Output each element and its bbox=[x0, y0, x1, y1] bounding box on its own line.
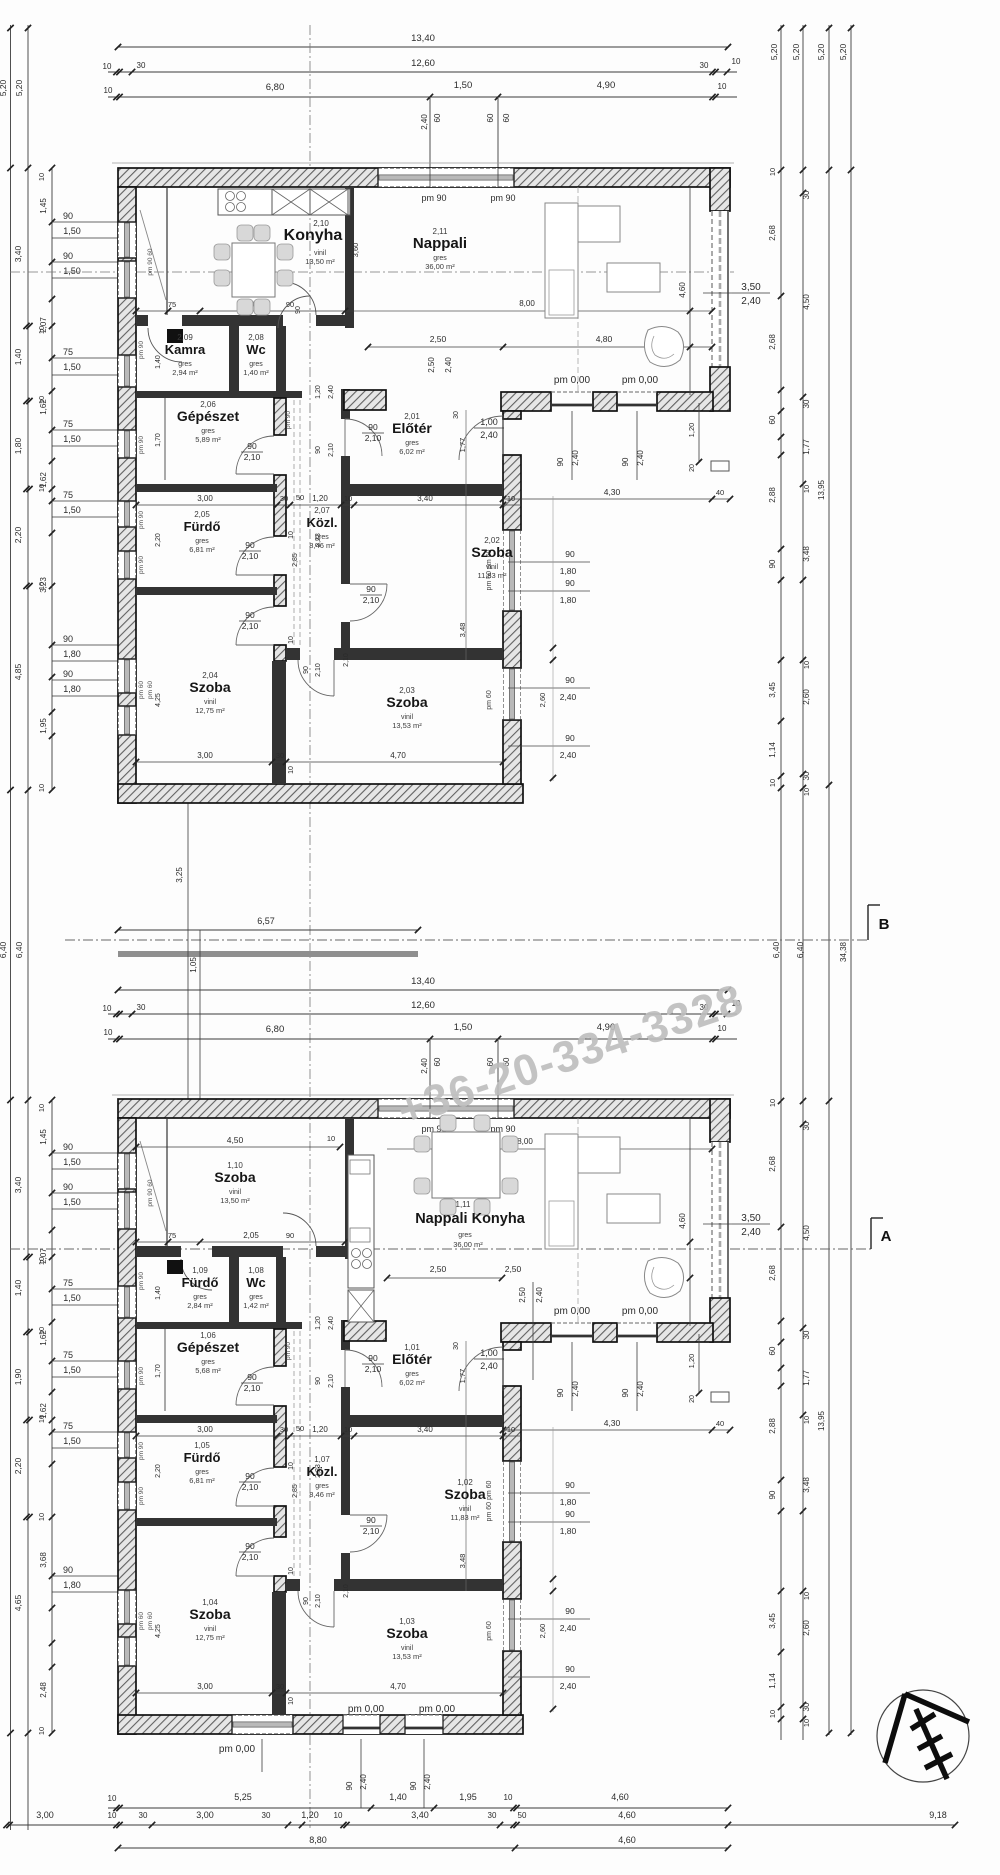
svg-text:75: 75 bbox=[63, 1278, 73, 1288]
svg-text:3,00: 3,00 bbox=[36, 1810, 54, 1820]
svg-text:Fürdő: Fürdő bbox=[184, 1450, 221, 1465]
svg-text:30: 30 bbox=[802, 190, 811, 199]
door furdo bbox=[236, 537, 274, 575]
svg-text:30: 30 bbox=[280, 494, 288, 503]
svg-text:90: 90 bbox=[565, 549, 575, 559]
svg-text:gres: gres bbox=[405, 440, 419, 447]
svg-text:4,60: 4,60 bbox=[678, 282, 687, 298]
terrace sliding door 1 bbox=[551, 391, 593, 393]
window left bbox=[118, 1153, 136, 1189]
wall konyha-nappali divider bbox=[345, 1118, 354, 1259]
svg-text:3,00: 3,00 bbox=[197, 751, 213, 760]
svg-text:10: 10 bbox=[103, 62, 112, 71]
svg-text:1,80: 1,80 bbox=[560, 595, 577, 605]
wall below kamra-wc bbox=[136, 1322, 302, 1329]
corridor left wall piers bbox=[274, 1329, 286, 1366]
door konyha-corridor bbox=[283, 282, 316, 315]
corridor right wall / szoba2 left wall bbox=[341, 1387, 350, 1515]
svg-text:10: 10 bbox=[802, 788, 811, 796]
coffee table lower bbox=[607, 1194, 660, 1223]
dashed line nappali bbox=[577, 187, 579, 392]
svg-text:2,50: 2,50 bbox=[518, 1287, 527, 1303]
svg-text:2,09: 2,09 bbox=[177, 333, 193, 342]
svg-text:50: 50 bbox=[296, 1424, 304, 1433]
svg-text:20: 20 bbox=[689, 1395, 696, 1403]
svg-text:Szoba: Szoba bbox=[214, 1169, 255, 1185]
svg-text:1,20: 1,20 bbox=[312, 1425, 328, 1434]
svg-text:10: 10 bbox=[104, 86, 113, 95]
svg-text:60: 60 bbox=[768, 1346, 777, 1355]
dim line under top row bbox=[136, 1241, 354, 1243]
outer wall left bbox=[118, 1118, 136, 1734]
svg-text:90: 90 bbox=[63, 1182, 73, 1192]
svg-text:1,50: 1,50 bbox=[63, 1365, 81, 1375]
svg-text:6,81 m²: 6,81 m² bbox=[189, 545, 215, 554]
terrace wall band blocks bbox=[501, 1323, 551, 1342]
svg-text:90: 90 bbox=[565, 1664, 575, 1674]
svg-text:4,60: 4,60 bbox=[618, 1810, 636, 1820]
left margin line x52 upper bbox=[51, 168, 53, 790]
svg-text:2,40: 2,40 bbox=[560, 1681, 577, 1691]
svg-text:vinil: vinil bbox=[229, 1189, 242, 1196]
svg-text:1,77: 1,77 bbox=[802, 439, 811, 455]
svg-text:8,00: 8,00 bbox=[519, 299, 535, 308]
svg-text:1,42 m²: 1,42 m² bbox=[243, 1301, 269, 1310]
window size label left lower bbox=[52, 1360, 118, 1362]
svg-text:1,50: 1,50 bbox=[63, 362, 81, 372]
wall furdo bottom bbox=[136, 1518, 277, 1526]
svg-text:2,40: 2,40 bbox=[328, 385, 335, 399]
svg-text:30: 30 bbox=[488, 1811, 497, 1820]
coffee table upper bbox=[607, 263, 660, 292]
svg-text:10: 10 bbox=[37, 173, 46, 181]
watermark phone number bbox=[392, 975, 750, 1136]
gepeszet closet line bbox=[164, 1329, 166, 1411]
window bottom left bbox=[232, 1715, 293, 1734]
kitchen counter upper bbox=[218, 189, 350, 215]
svg-text:2,20: 2,20 bbox=[155, 533, 162, 547]
right margin line x851 bbox=[850, 25, 852, 1735]
dining table upper bbox=[232, 243, 275, 297]
svg-text:pm 0,00: pm 0,00 bbox=[219, 1744, 256, 1755]
wall szoba 2.03 top / corridor bottom bbox=[286, 1579, 300, 1591]
window right low bbox=[503, 668, 521, 720]
svg-text:vinil: vinil bbox=[459, 1506, 472, 1513]
window size label left upper bbox=[52, 429, 118, 431]
kitchen crossed units lower bbox=[348, 1290, 374, 1322]
svg-text:1,95: 1,95 bbox=[39, 718, 48, 734]
wall below top-left room bbox=[136, 315, 148, 326]
window size label left lower bbox=[52, 1288, 118, 1290]
svg-text:gres: gres bbox=[201, 428, 215, 435]
svg-text:13,95: 13,95 bbox=[817, 479, 826, 500]
svg-text:2,10: 2,10 bbox=[328, 443, 335, 457]
svg-text:pm 90 60: pm 90 60 bbox=[147, 248, 154, 275]
kitchen counter lower vertical bbox=[348, 1155, 374, 1288]
svg-text:1,70: 1,70 bbox=[155, 1364, 162, 1378]
terrace slab edge middle bbox=[118, 951, 418, 957]
svg-text:gres: gres bbox=[315, 1483, 329, 1490]
svg-text:1,50: 1,50 bbox=[454, 80, 473, 91]
window size label left lower bbox=[52, 1575, 118, 1577]
dim 4,30 under terrace bbox=[503, 498, 730, 500]
svg-text:13,40: 13,40 bbox=[411, 976, 435, 987]
svg-text:40: 40 bbox=[716, 488, 724, 497]
svg-text:1,70: 1,70 bbox=[155, 433, 162, 447]
svg-text:1,00: 1,00 bbox=[480, 417, 498, 427]
svg-text:1,05: 1,05 bbox=[194, 1441, 210, 1450]
svg-text:6,40: 6,40 bbox=[14, 941, 24, 958]
svg-text:10: 10 bbox=[768, 168, 777, 176]
armchair upper bbox=[644, 326, 683, 366]
svg-text:4,85: 4,85 bbox=[13, 663, 23, 680]
svg-text:2,08: 2,08 bbox=[248, 333, 264, 342]
svg-text:gres: gres bbox=[458, 1232, 472, 1239]
eloter top stub wall bbox=[344, 390, 386, 410]
svg-text:1,50: 1,50 bbox=[63, 226, 81, 236]
svg-text:2,40: 2,40 bbox=[741, 296, 761, 307]
dimension 12,60 middle bbox=[108, 1013, 737, 1015]
svg-text:10: 10 bbox=[802, 1416, 811, 1424]
svg-text:90: 90 bbox=[63, 1565, 73, 1575]
svg-text:Wc: Wc bbox=[246, 1275, 266, 1290]
svg-text:30: 30 bbox=[137, 61, 146, 70]
wall between szoba 2.04 and 2.03 bbox=[272, 1592, 286, 1715]
svg-text:3,00: 3,00 bbox=[196, 1810, 214, 1820]
roof overhang line top bbox=[112, 162, 734, 164]
svg-text:3,40: 3,40 bbox=[417, 1425, 433, 1434]
svg-text:pm 90: pm 90 bbox=[138, 1272, 145, 1290]
svg-text:pm 90: pm 90 bbox=[138, 341, 145, 359]
svg-text:2,40: 2,40 bbox=[420, 114, 429, 130]
svg-text:30: 30 bbox=[137, 1003, 146, 1012]
svg-text:2,40: 2,40 bbox=[560, 1623, 577, 1633]
svg-text:90: 90 bbox=[63, 669, 73, 679]
svg-text:Szoba: Szoba bbox=[471, 544, 512, 560]
svg-text:3,48: 3,48 bbox=[802, 1477, 811, 1493]
svg-text:10: 10 bbox=[37, 1104, 46, 1112]
svg-text:90: 90 bbox=[245, 610, 255, 620]
extension line window right mullion top bbox=[497, 97, 499, 168]
svg-text:2,40: 2,40 bbox=[741, 1227, 761, 1238]
svg-text:10: 10 bbox=[288, 1567, 295, 1575]
svg-text:30: 30 bbox=[453, 411, 460, 419]
svg-text:pm 0,00: pm 0,00 bbox=[554, 1306, 591, 1317]
corridor right wall / szoba2 left wall bbox=[341, 456, 350, 584]
window size label left upper bbox=[52, 679, 118, 681]
svg-text:gres: gres bbox=[249, 361, 263, 368]
svg-text:Fürdő: Fürdő bbox=[184, 519, 221, 534]
svg-text:4,60: 4,60 bbox=[618, 1835, 636, 1845]
svg-text:Szoba: Szoba bbox=[189, 679, 230, 695]
door szoba2.03 bbox=[298, 1591, 334, 1627]
svg-text:90: 90 bbox=[621, 1388, 630, 1397]
svg-text:10: 10 bbox=[718, 82, 727, 91]
svg-text:Közl.: Közl. bbox=[306, 1464, 337, 1479]
svg-text:pm 0,00: pm 0,00 bbox=[348, 1704, 385, 1715]
svg-text:2,10: 2,10 bbox=[242, 1482, 259, 1492]
svg-text:1,40: 1,40 bbox=[389, 1792, 407, 1802]
dim 1,20 electrical bbox=[698, 1334, 700, 1393]
svg-text:1,05: 1,05 bbox=[189, 957, 198, 973]
wall wc right bbox=[276, 326, 286, 391]
window top 1 bbox=[378, 1099, 514, 1118]
dimension chain bottom full bbox=[8, 1824, 955, 1826]
svg-text:2,40: 2,40 bbox=[480, 1361, 498, 1371]
window left bbox=[118, 501, 136, 527]
svg-text:75: 75 bbox=[63, 490, 73, 500]
wall konyha-nappali divider bbox=[345, 187, 354, 328]
svg-text:2,20: 2,20 bbox=[13, 526, 23, 543]
svg-text:6,81 m²: 6,81 m² bbox=[189, 1476, 215, 1485]
kitchen crossed units upper bbox=[272, 189, 310, 215]
window labels right side 90 1,80 bbox=[508, 1492, 590, 1494]
window left bbox=[118, 1482, 136, 1510]
svg-text:90: 90 bbox=[565, 578, 575, 588]
svg-text:2,05: 2,05 bbox=[194, 510, 210, 519]
svg-text:30: 30 bbox=[139, 1811, 148, 1820]
svg-text:4,25: 4,25 bbox=[155, 1624, 162, 1638]
wall wc right bbox=[276, 1257, 286, 1322]
svg-text:90: 90 bbox=[247, 1372, 257, 1382]
dim 8,00 nappali bbox=[354, 310, 712, 312]
window size label left upper bbox=[52, 500, 118, 502]
svg-text:pm 90: pm 90 bbox=[138, 1442, 145, 1460]
svg-text:A: A bbox=[881, 1228, 892, 1245]
svg-text:90: 90 bbox=[621, 457, 630, 466]
svg-text:2,10: 2,10 bbox=[343, 1584, 350, 1598]
dim line under top row bbox=[136, 310, 354, 312]
svg-text:8,46 m²: 8,46 m² bbox=[309, 1490, 335, 1499]
svg-text:8,00: 8,00 bbox=[517, 1137, 533, 1146]
terrace sliding door 2 bbox=[617, 391, 657, 393]
svg-text:90: 90 bbox=[63, 211, 73, 221]
corridor left wall piers bbox=[274, 398, 286, 435]
dimension 6,80 1,50 4,90 top bbox=[108, 96, 737, 98]
svg-text:3,45: 3,45 bbox=[768, 682, 777, 698]
svg-text:1,11: 1,11 bbox=[456, 1200, 472, 1209]
terrace door bottom 1 bbox=[343, 1715, 380, 1734]
svg-text:pm 60: pm 60 bbox=[486, 1621, 493, 1641]
svg-text:2,85: 2,85 bbox=[292, 1484, 299, 1498]
window left bbox=[118, 551, 136, 579]
svg-text:20: 20 bbox=[689, 464, 696, 472]
svg-text:4,65: 4,65 bbox=[13, 1594, 23, 1611]
svg-text:3,45: 3,45 bbox=[768, 1613, 777, 1629]
dim 4,30 under terrace bbox=[503, 1429, 730, 1431]
terrace sliding door 1 bbox=[551, 1322, 593, 1324]
svg-text:1,14: 1,14 bbox=[768, 742, 777, 758]
svg-text:1,14: 1,14 bbox=[768, 1673, 777, 1689]
svg-text:10: 10 bbox=[507, 1425, 515, 1434]
svg-text:8,80: 8,80 bbox=[309, 1835, 327, 1845]
svg-text:90: 90 bbox=[556, 457, 565, 466]
dim extension lower bbox=[532, 1282, 534, 1380]
wall szoba2 top bbox=[341, 1415, 503, 1427]
svg-text:2,60: 2,60 bbox=[538, 693, 547, 708]
svg-text:1,40: 1,40 bbox=[13, 1279, 23, 1296]
outer wall top bbox=[118, 1099, 730, 1118]
extension line window left mullion top bbox=[429, 97, 431, 168]
window size label left lower bbox=[52, 1152, 118, 1154]
gepeszet closet line bbox=[164, 398, 166, 480]
svg-text:75: 75 bbox=[168, 1231, 176, 1240]
svg-text:13,53 m²: 13,53 m² bbox=[392, 721, 422, 730]
svg-text:12,75 m²: 12,75 m² bbox=[195, 1633, 225, 1642]
section line B-B bbox=[65, 939, 868, 941]
dim line bottom rooms bbox=[136, 761, 503, 763]
corridor-eloter wall bbox=[341, 389, 350, 419]
door szoba2.03 bbox=[298, 660, 334, 696]
svg-text:5,20: 5,20 bbox=[769, 43, 779, 60]
svg-text:1,80: 1,80 bbox=[63, 684, 81, 694]
wall gepeszet bottom / furdo top bbox=[136, 1415, 277, 1423]
svg-text:12,60: 12,60 bbox=[411, 1000, 435, 1011]
svg-text:Konyha: Konyha bbox=[284, 227, 343, 244]
svg-text:4,70: 4,70 bbox=[390, 1682, 406, 1691]
svg-text:13,40: 13,40 bbox=[411, 33, 435, 44]
svg-text:3,00: 3,00 bbox=[197, 1425, 213, 1434]
svg-text:pm 0,00: pm 0,00 bbox=[554, 375, 591, 386]
svg-text:10: 10 bbox=[802, 1719, 811, 1727]
svg-text:Előtér: Előtér bbox=[392, 1351, 432, 1367]
svg-text:pm 60: pm 60 bbox=[138, 1612, 145, 1630]
svg-text:10: 10 bbox=[288, 1697, 295, 1705]
svg-text:2,20: 2,20 bbox=[13, 1457, 23, 1474]
svg-text:10: 10 bbox=[768, 1710, 777, 1718]
svg-text:30: 30 bbox=[802, 399, 811, 408]
window right mid bbox=[503, 1461, 521, 1542]
svg-text:10: 10 bbox=[732, 57, 741, 66]
svg-text:gres: gres bbox=[201, 1359, 215, 1366]
outer wall top bbox=[118, 168, 730, 187]
svg-text:90: 90 bbox=[245, 540, 255, 550]
svg-text:6,80: 6,80 bbox=[266, 1024, 285, 1035]
closet line top-left bbox=[166, 1118, 168, 1246]
svg-text:Nappali: Nappali bbox=[413, 235, 467, 252]
svg-text:3,00: 3,00 bbox=[197, 1682, 213, 1691]
svg-text:1,50: 1,50 bbox=[63, 434, 81, 444]
dim 4,50 szoba 1.10 bbox=[136, 1146, 340, 1148]
door kamra bbox=[148, 328, 182, 362]
svg-text:3,40: 3,40 bbox=[411, 1810, 429, 1820]
window right mid bbox=[503, 530, 521, 611]
svg-text:3,40: 3,40 bbox=[13, 1176, 23, 1193]
svg-text:90: 90 bbox=[409, 1781, 418, 1790]
svg-text:4,50: 4,50 bbox=[227, 1135, 244, 1145]
svg-text:2,10: 2,10 bbox=[343, 653, 350, 667]
svg-text:3,25: 3,25 bbox=[175, 867, 184, 883]
svg-text:pm 60 pm 60: pm 60 pm 60 bbox=[486, 1480, 493, 1521]
svg-text:3,50: 3,50 bbox=[741, 1213, 761, 1224]
left margin line x28 bbox=[27, 25, 29, 1830]
svg-text:10: 10 bbox=[37, 784, 46, 792]
svg-text:Wc: Wc bbox=[246, 342, 266, 357]
svg-text:2,88: 2,88 bbox=[768, 487, 777, 503]
svg-text:5,20: 5,20 bbox=[816, 43, 826, 60]
svg-text:2,10: 2,10 bbox=[363, 1526, 380, 1536]
svg-text:5,20: 5,20 bbox=[791, 43, 801, 60]
svg-text:gres: gres bbox=[195, 538, 209, 545]
svg-text:2,50: 2,50 bbox=[430, 334, 447, 344]
wall below top-left room bbox=[136, 1246, 181, 1257]
svg-text:40: 40 bbox=[716, 1419, 724, 1428]
section trace upper plan bbox=[10, 271, 734, 273]
svg-text:12,75 m²: 12,75 m² bbox=[195, 706, 225, 715]
svg-text:90: 90 bbox=[245, 1471, 255, 1481]
svg-text:1,80: 1,80 bbox=[63, 1580, 81, 1590]
svg-text:13,53 m²: 13,53 m² bbox=[392, 1652, 422, 1661]
svg-text:2,05: 2,05 bbox=[243, 1231, 259, 1240]
window left bbox=[118, 1590, 136, 1624]
svg-text:1,20: 1,20 bbox=[687, 423, 696, 438]
svg-text:10: 10 bbox=[504, 1793, 513, 1802]
svg-text:2,10: 2,10 bbox=[244, 1383, 261, 1393]
door szoba 2.04 bbox=[236, 607, 274, 645]
svg-text:4,70: 4,70 bbox=[390, 751, 406, 760]
svg-text:8,46 m²: 8,46 m² bbox=[309, 541, 335, 550]
svg-text:1,80: 1,80 bbox=[13, 437, 23, 454]
sofa lower bbox=[545, 1134, 578, 1249]
svg-text:60: 60 bbox=[486, 113, 495, 122]
svg-text:pm 60: pm 60 bbox=[138, 681, 145, 699]
roof overhang line lower plan bbox=[112, 1094, 734, 1096]
svg-text:90: 90 bbox=[286, 1231, 294, 1240]
door konyha-corridor bbox=[283, 1213, 316, 1246]
logo circle bottom right bbox=[877, 1690, 969, 1782]
svg-text:1,09: 1,09 bbox=[192, 1266, 208, 1275]
window left bbox=[118, 1286, 136, 1318]
outer wall right of lower section bbox=[503, 1342, 521, 1350]
svg-text:gres: gres bbox=[405, 1371, 419, 1378]
svg-text:B: B bbox=[879, 916, 890, 933]
svg-text:36,00 m²: 36,00 m² bbox=[453, 1240, 483, 1249]
window size label left upper bbox=[52, 644, 118, 646]
svg-text:2,40: 2,40 bbox=[535, 1287, 544, 1303]
svg-text:Közl.: Közl. bbox=[306, 515, 337, 530]
svg-text:2,40: 2,40 bbox=[560, 692, 577, 702]
door gepeszet bbox=[236, 436, 274, 474]
svg-text:10: 10 bbox=[334, 1811, 343, 1820]
svg-text:11,83 m²: 11,83 m² bbox=[450, 1513, 480, 1522]
wall gepeszet bottom / furdo top bbox=[136, 484, 277, 492]
svg-text:50: 50 bbox=[518, 1811, 527, 1820]
window left bbox=[118, 1361, 136, 1389]
svg-text:vinil: vinil bbox=[204, 699, 217, 706]
svg-text:10: 10 bbox=[37, 1727, 46, 1735]
svg-text:1,62: 1,62 bbox=[39, 399, 48, 415]
left margin line x52 lower bbox=[51, 1100, 53, 1733]
svg-text:10: 10 bbox=[344, 494, 352, 503]
dim line bottom rooms bbox=[136, 1692, 503, 1694]
svg-text:10: 10 bbox=[507, 494, 515, 503]
svg-text:4,90: 4,90 bbox=[597, 80, 616, 91]
svg-text:60: 60 bbox=[768, 415, 777, 424]
svg-text:1,40: 1,40 bbox=[155, 355, 162, 369]
svg-text:90: 90 bbox=[315, 1377, 322, 1385]
svg-text:90: 90 bbox=[295, 306, 302, 314]
svg-text:90: 90 bbox=[366, 1515, 376, 1525]
svg-text:Szoba: Szoba bbox=[189, 1606, 230, 1622]
svg-text:2,48: 2,48 bbox=[39, 1682, 48, 1698]
svg-text:2,60: 2,60 bbox=[802, 689, 811, 705]
door szoba2.02 bbox=[350, 1515, 387, 1552]
wall kamra-wc bbox=[229, 326, 239, 391]
wall between szoba 2.04 and 2.03 bbox=[272, 661, 286, 784]
dim 4,60 vertical right bbox=[689, 1118, 691, 1326]
svg-text:2,10: 2,10 bbox=[365, 1364, 382, 1374]
svg-text:6,40: 6,40 bbox=[0, 941, 8, 958]
